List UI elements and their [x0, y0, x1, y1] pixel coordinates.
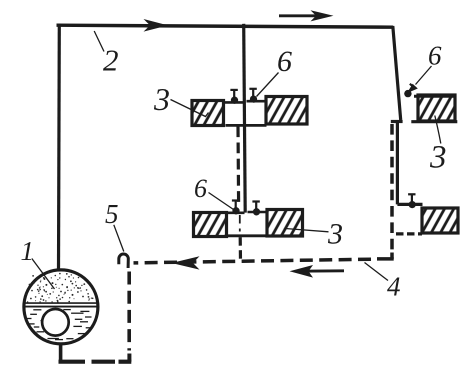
- dashed drain: top assembly to bottom assembly: [236, 126, 240, 203]
- arrow below return line: [299, 269, 344, 272]
- svg-text:3: 3: [153, 81, 170, 117]
- wire: right vertical supply between bearings: [396, 120, 399, 204]
- leader for label 2: [94, 31, 104, 52]
- svg-text:6: 6: [194, 174, 207, 203]
- leader for label 3 (top-left): [171, 100, 209, 117]
- oiler 6 (bottom assembly, right): [252, 201, 260, 215]
- bearing block 3 (bottom assembly, right half): [267, 210, 303, 237]
- leader for label 6 (right): [416, 66, 432, 85]
- oil texture dashes (lower): [27, 310, 92, 340]
- dashed return corner (right): [377, 253, 394, 259]
- bearing block 3 (right upper): [418, 95, 455, 121]
- dashed line under right lower bearing: [396, 232, 422, 235]
- wire: central vertical supply: [244, 24, 246, 213]
- oiler (right lower): [408, 194, 416, 208]
- leader for label 5: [114, 225, 124, 252]
- leader for label 3 (bottom assembly): [285, 224, 329, 232]
- oiler 6 (top assembly, right): [249, 89, 257, 103]
- leader for label 4: [365, 263, 389, 281]
- bearing block (top assembly, right half): [266, 97, 307, 125]
- dashed left vertical (hook to bottom): [127, 272, 131, 351]
- dashed drain thin through bottom bearing: [239, 215, 241, 232]
- bearing cap lines (top assembly): [223, 101, 268, 125]
- svg-text:2: 2: [103, 43, 119, 78]
- wire: right jog to lower bearing valve: [397, 203, 422, 206]
- leader for label 1: [32, 259, 55, 290]
- stipple texture (upper): [26, 272, 93, 303]
- wire: left vertical supply to reservoir: [57, 24, 61, 270]
- pump rotor (inner circle): [42, 309, 69, 336]
- reservoir bottom stub: [59, 344, 63, 363]
- wire: right jog horizontal at upper bearing: [391, 120, 403, 123]
- drain hook 5: [119, 254, 129, 268]
- oil level double line: [24, 303, 98, 307]
- leader for label 6 (bottom assembly): [209, 193, 234, 210]
- arrow on supply line (flow direction): [144, 19, 169, 32]
- wire: right slanted supply: [393, 26, 401, 120]
- wire: top supply line 2: [57, 25, 394, 27]
- bearing block 3 (top assembly, left half): [192, 101, 224, 126]
- bearing block (bottom assembly, left half): [194, 213, 227, 237]
- oiler 6 (bottom assembly, left): [232, 200, 240, 214]
- arrow above supply line: [279, 14, 317, 17]
- bearing cap lines (right upper): [411, 96, 457, 122]
- dashed right vertical return: [390, 124, 394, 252]
- svg-text:3: 3: [327, 218, 343, 251]
- dashed bottom horizontal to reservoir: [59, 360, 116, 364]
- svg-text:3: 3: [429, 140, 447, 176]
- dashed corner bottom-left: [119, 354, 132, 362]
- leader for label 6 (top): [257, 73, 279, 97]
- arrowhead on return line: [172, 256, 200, 269]
- svg-text:6: 6: [428, 41, 442, 71]
- dashed drain below bottom assembly to return line: [239, 237, 243, 261]
- reservoir pump 1 (outer circle): [24, 270, 98, 344]
- bearing block (right lower): [422, 208, 458, 233]
- svg-text:5: 5: [105, 199, 119, 229]
- oiler 6 (top assembly, left): [230, 90, 238, 104]
- oiler 6 (right upper): [404, 84, 415, 98]
- bearing cap lines (bottom assembly): [226, 212, 268, 236]
- svg-text:6: 6: [277, 45, 292, 78]
- leader for label 3 (right): [435, 116, 441, 144]
- dashed return line 4 (horizontal): [134, 259, 372, 263]
- svg-text:4: 4: [387, 272, 401, 302]
- svg-text:1: 1: [21, 236, 35, 266]
